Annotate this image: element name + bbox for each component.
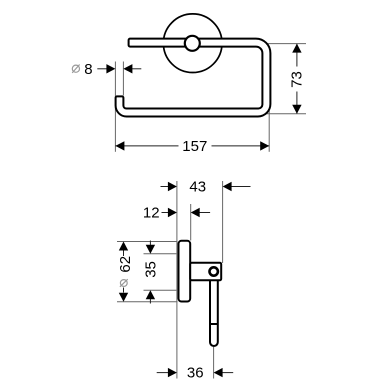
svg-text:35: 35: [143, 261, 160, 278]
dimension 36: [157, 365, 234, 382]
diameter symbol: [72, 65, 79, 73]
extension line o62 top: [117, 241, 178, 243]
dimension o62: [117, 242, 134, 302]
dimension o8: [72, 61, 141, 78]
extension line 35 bottom: [144, 289, 177, 291]
extension line top (73): [267, 43, 306, 45]
svg-text:12: 12: [143, 205, 160, 222]
extension line 43 right: [222, 181, 224, 263]
svg-text:62: 62: [117, 256, 134, 273]
wall plate circle: [163, 14, 222, 73]
centerline of bar: [213, 347, 215, 379]
svg-text:157: 157: [182, 138, 207, 155]
dimension 73: [288, 44, 305, 114]
bar joint line: [210, 323, 218, 325]
svg-text:43: 43: [189, 179, 206, 196]
svg-text:36: 36: [187, 365, 204, 382]
dimension 43: [161, 179, 251, 196]
extension line right (157): [268, 107, 270, 152]
hanging bar (side): [210, 276, 218, 346]
diameter symbol: [120, 279, 128, 287]
dimension 35: [143, 241, 160, 304]
extension line 12 right: [190, 204, 192, 241]
extension line bottom (73): [262, 113, 306, 115]
extension line right of o8: [122, 62, 124, 96]
extension line wall face: [176, 181, 178, 379]
extension line o62 bottom: [117, 301, 178, 303]
screw circle: [210, 267, 218, 275]
svg-text:73: 73: [288, 71, 305, 88]
dimension 12: [143, 205, 210, 222]
wall plate (side): [179, 241, 191, 302]
ring tube: [116, 39, 271, 117]
extension line left (o8 / 157): [114, 62, 116, 152]
dimension 157: [115, 138, 269, 155]
bracket arm: [190, 263, 221, 281]
svg-text:8: 8: [84, 61, 92, 78]
extension line 35 top: [144, 253, 177, 255]
hub small circle: [185, 36, 200, 51]
